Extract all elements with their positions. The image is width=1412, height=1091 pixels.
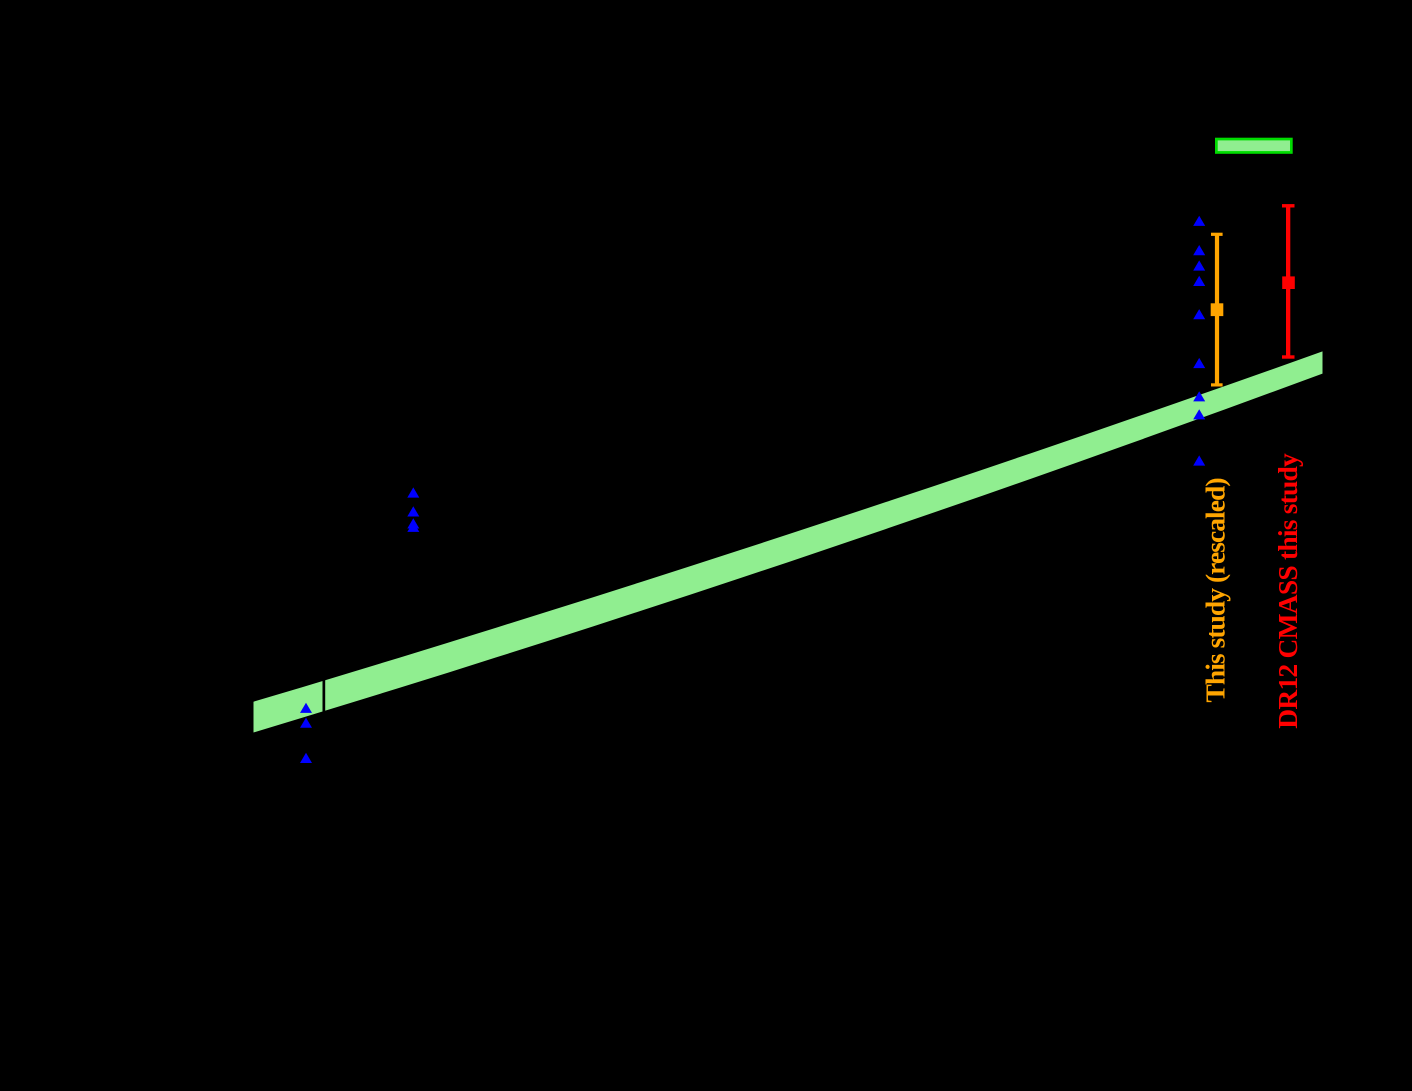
black errorbar line crossing the band — [323, 676, 326, 714]
blue triangles cluster 3 (x=1199.2) — [1193, 216, 1205, 466]
svg-text:DR12 CMASS this study: DR12 CMASS this study — [1272, 453, 1303, 729]
blue triangles cluster 2 (x=413.3) — [407, 487, 419, 532]
green model band — [254, 351, 1323, 732]
blue triangles cluster 1 (x=306) — [300, 703, 312, 763]
orange errorbar "This study (rescaled)" — [1211, 233, 1224, 387]
red errorbar "DR12 CMASS this study" — [1282, 204, 1295, 359]
legend swatch (green band) — [1216, 139, 1291, 152]
svg-text:This study (rescaled): This study (rescaled) — [1200, 478, 1231, 703]
